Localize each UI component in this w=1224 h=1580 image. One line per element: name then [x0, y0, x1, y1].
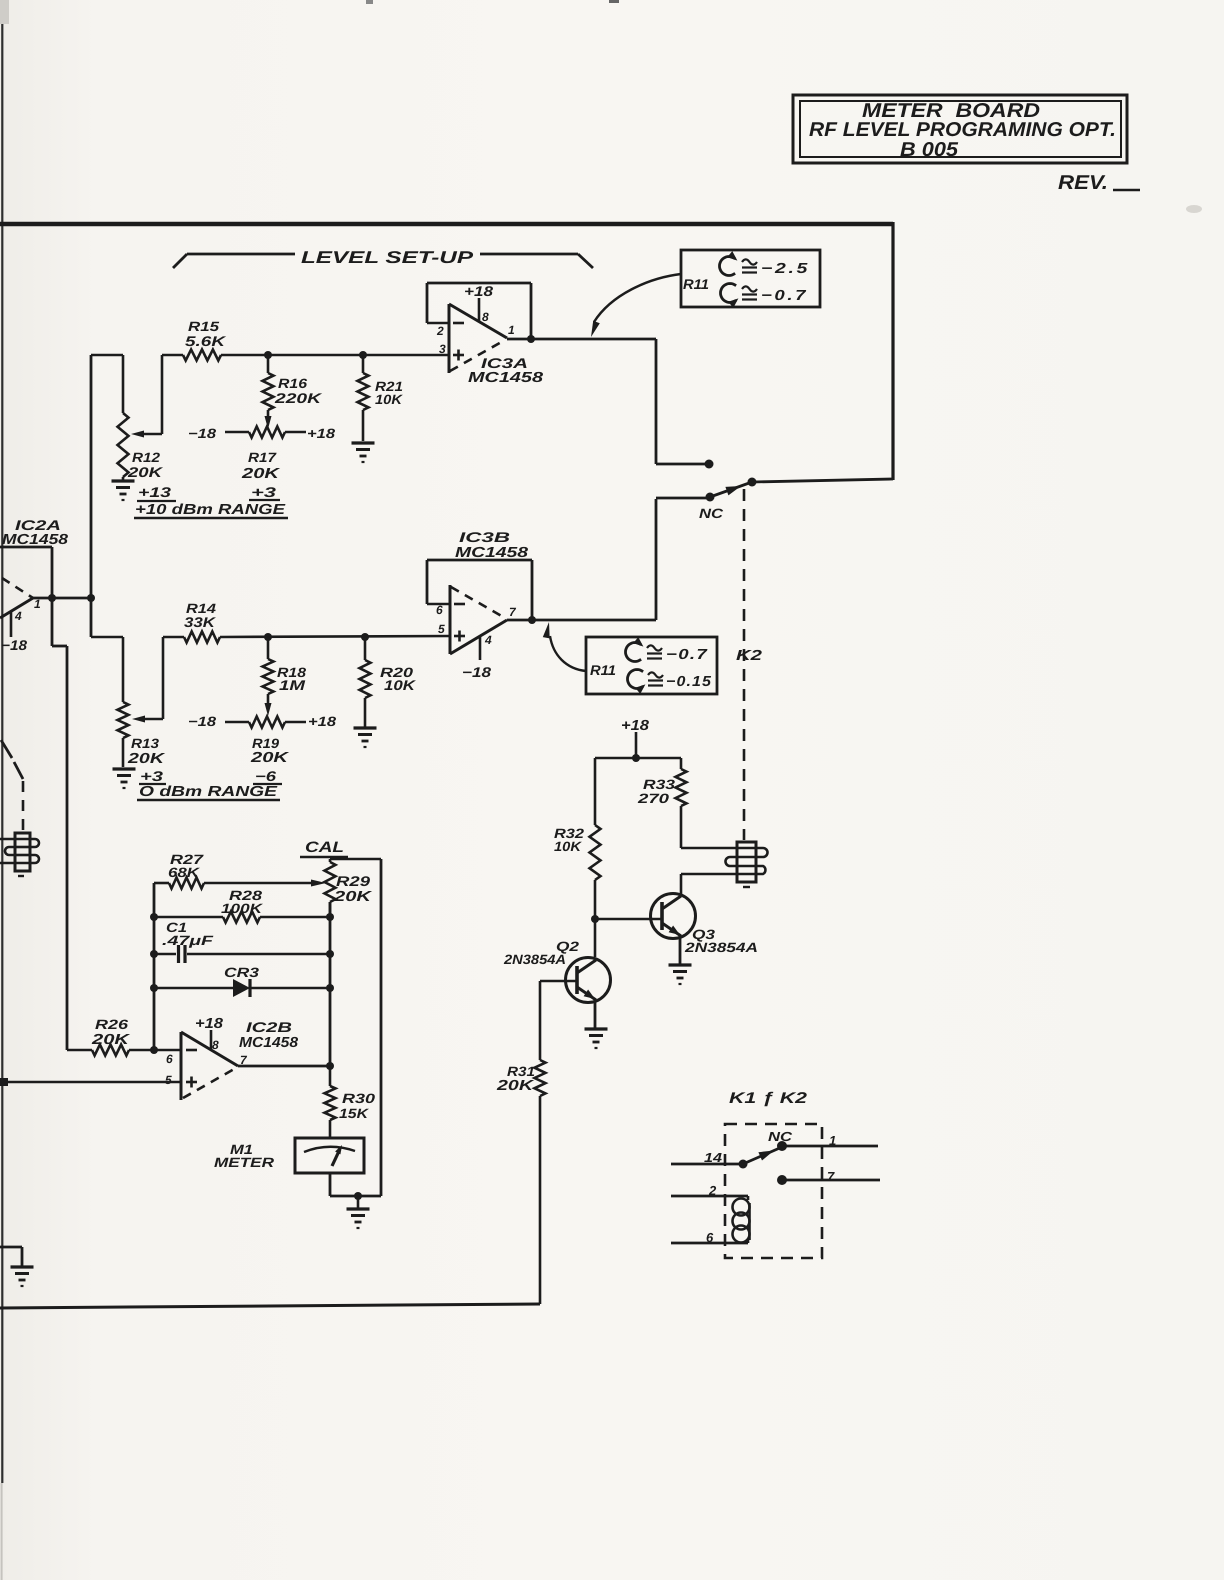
svg-text:20K: 20K: [241, 466, 282, 482]
svg-text:14: 14: [704, 1150, 723, 1165]
svg-text:R33: R33: [643, 777, 676, 792]
svg-text:K1 ƒ K2: K1 ƒ K2: [729, 1090, 808, 1107]
node C1 left: [150, 950, 158, 958]
svg-text:+3: +3: [140, 768, 163, 784]
svg-text:10K: 10K: [384, 677, 416, 693]
wire top border: [0, 222, 893, 226]
svg-text:33K: 33K: [184, 614, 216, 630]
wire left fb rail: [153, 883, 156, 1050]
CR3 label: [224, 965, 260, 980]
R13 value label: [127, 736, 166, 767]
svg-text:−2.5: −2.5: [761, 261, 810, 277]
wire wiper to R14: [163, 636, 184, 639]
svg-text:−0.7: −0.7: [666, 647, 708, 663]
wire IC3B feedback loop: [427, 560, 532, 619]
node meter ground tap: [354, 1192, 362, 1200]
K1 actuation dashed link: [22, 781, 25, 833]
level set-up bracket: [173, 248, 593, 268]
wire Q2 emitter: [594, 999, 597, 1028]
transistor Q2: [566, 958, 611, 1003]
svg-text:R12: R12: [132, 450, 161, 465]
wire IC2B pin5 input: [0, 1078, 181, 1086]
diode CR3: [154, 979, 330, 997]
svg-text:20K: 20K: [496, 1078, 535, 1094]
transistor Q3: [651, 894, 696, 939]
svg-text:R17: R17: [248, 450, 278, 465]
node IC2A fb junction: [48, 594, 56, 602]
svg-text:+18: +18: [195, 1016, 224, 1032]
wire R33 to coil: [681, 847, 737, 850]
meter M1: [295, 1138, 364, 1173]
-18 label R19: [188, 714, 217, 729]
svg-text:RF LEVEL PROGRAMING OPT.: RF LEVEL PROGRAMING OPT.: [809, 119, 1116, 141]
svg-text:R30: R30: [342, 1091, 376, 1106]
svg-text:R26: R26: [95, 1017, 129, 1032]
wire rail to R26: [52, 598, 67, 1050]
svg-text:−0.7: −0.7: [761, 288, 808, 304]
svg-text:NC: NC: [768, 1129, 793, 1144]
R33 value label: [637, 777, 676, 806]
svg-text:+13: +13: [138, 484, 171, 500]
wire right border: [891, 222, 894, 480]
R21 value label: [375, 379, 403, 407]
svg-text:+18: +18: [464, 283, 493, 299]
R11 adjust note lower: [586, 637, 717, 694]
svg-text:4: 4: [484, 633, 492, 647]
potentiometer R19: [225, 717, 306, 728]
svg-text:+3: +3: [251, 484, 276, 500]
IC3A label: [468, 355, 544, 386]
wire IC3A feedback loop: [427, 283, 531, 339]
svg-text:−6: −6: [255, 768, 276, 784]
R12 value label: [127, 450, 163, 480]
R14 value label: [184, 601, 217, 630]
wire common to border: [752, 479, 893, 482]
NC label: [699, 506, 723, 521]
svg-text:O dBm RANGE: O dBm RANGE: [139, 784, 279, 800]
svg-text:20K: 20K: [250, 750, 291, 766]
node +18 tap: [632, 754, 640, 762]
range note 0dBm: [137, 768, 282, 800]
op-amp IC3A: [427, 304, 515, 373]
node pin14 contact: [739, 1160, 748, 1169]
title box: [793, 95, 1127, 163]
ground R20: [354, 728, 377, 747]
node IC3B output-feedback: [528, 616, 536, 624]
resistor R14: [184, 632, 220, 643]
wire wiper to R15: [162, 354, 183, 357]
svg-text:IC2A: IC2A: [15, 517, 61, 533]
svg-text:7: 7: [827, 1169, 835, 1184]
svg-text:R15: R15: [188, 319, 220, 334]
resistor R28: [154, 912, 330, 923]
svg-text:2N3854A: 2N3854A: [684, 940, 758, 955]
R11 lower arrow: [543, 622, 586, 671]
wire IC3A out drop: [656, 339, 706, 464]
svg-text:+10 dBm RANGE: +10 dBm RANGE: [135, 502, 287, 518]
R30 value label: [339, 1091, 376, 1121]
K1-K2 detail title: [729, 1090, 808, 1107]
node IC2B output: [326, 1062, 334, 1070]
ground meter: [347, 1209, 370, 1228]
wire base junction to Q3: [595, 918, 662, 921]
R27 value label: [168, 852, 205, 880]
svg-text:−18: −18: [462, 664, 491, 680]
node R20 tap: [361, 633, 369, 641]
node R16 tap: [264, 351, 272, 359]
node R28 left: [150, 913, 158, 921]
resistor R32: [590, 758, 601, 919]
ground R13: [113, 769, 136, 788]
ground Q3: [669, 965, 692, 984]
svg-text:220K: 220K: [274, 390, 323, 406]
svg-text:R16: R16: [278, 376, 308, 391]
wire left rail upper: [90, 355, 93, 598]
wire R14 to IC3B pin5: [220, 636, 450, 637]
Q2 label: [503, 939, 580, 967]
wire Q3 emitter: [679, 935, 682, 964]
svg-text:+18: +18: [621, 718, 650, 734]
+18 label R19: [308, 714, 337, 729]
resistor R33: [676, 758, 687, 848]
K2 label: [736, 648, 762, 664]
resistor R30: [325, 1066, 336, 1138]
ground bottom-left: [11, 1267, 34, 1286]
range note +10dBm: [134, 484, 288, 518]
svg-text:4: 4: [14, 609, 22, 623]
potentiometer R13: [118, 637, 129, 767]
ground R12: [112, 481, 135, 500]
svg-text:8: 8: [212, 1038, 219, 1052]
svg-text:2: 2: [436, 324, 444, 338]
node C1 right: [326, 950, 334, 958]
NC label detail: [768, 1129, 793, 1144]
svg-text:−18: −18: [1, 637, 27, 653]
potentiometer R29: [325, 859, 336, 918]
wire right rail: [380, 859, 383, 1196]
R32 value label: [554, 826, 585, 854]
ground R21: [352, 443, 375, 462]
svg-text:REV.: REV.: [1058, 172, 1108, 194]
wire junction to Q2 collector: [594, 919, 597, 957]
R11 adjust note upper: [681, 250, 820, 308]
R16 value label: [274, 376, 323, 406]
svg-text:CR3: CR3: [224, 965, 260, 980]
svg-text:10K: 10K: [375, 392, 403, 407]
svg-text:8: 8: [482, 310, 489, 324]
svg-text:20K: 20K: [127, 464, 163, 480]
wire meter to ground rail: [330, 1173, 381, 1196]
ground Q2: [585, 1029, 608, 1048]
svg-text:1: 1: [508, 323, 515, 337]
wire +18 bus: [595, 757, 681, 760]
wire IC2A feedback: [0, 547, 52, 598]
wire R15 node to rail: [91, 354, 123, 357]
svg-text:B 005: B 005: [900, 139, 959, 161]
svg-text:68K: 68K: [168, 865, 201, 880]
resistor R18: [263, 637, 274, 716]
R18 value label: [277, 665, 307, 693]
pin 1 wire: [782, 1133, 878, 1148]
K1-K2 dashed outline: [725, 1124, 822, 1258]
node R21 tap: [359, 351, 367, 359]
svg-text:K2: K2: [736, 648, 762, 664]
svg-text:+18: +18: [307, 426, 336, 441]
svg-text:CAL: CAL: [305, 839, 344, 856]
svg-text:2N3854A: 2N3854A: [503, 952, 566, 967]
op-amp IC3B: [427, 585, 517, 660]
pin 7 wire: [782, 1169, 880, 1184]
R13 wiper: [132, 637, 163, 723]
R28 value label: [221, 888, 264, 916]
potentiometer R17: [225, 427, 306, 438]
M1 label: [214, 1142, 274, 1170]
svg-text:IC3B: IC3B: [459, 529, 510, 545]
IC2A label: [2, 517, 69, 548]
relay coil K1: [0, 833, 39, 876]
node CR3 right: [326, 984, 334, 992]
svg-text:NC: NC: [699, 506, 723, 521]
-18 label R17: [188, 426, 217, 441]
C1 value label: [162, 920, 214, 948]
svg-text:5.6K: 5.6K: [185, 333, 226, 349]
+18 label R17: [307, 426, 336, 441]
svg-text:15K: 15K: [339, 1106, 369, 1121]
svg-text:R11: R11: [683, 276, 709, 292]
R15 value label: [185, 319, 226, 349]
R31 value label: [496, 1064, 535, 1094]
svg-text:R31: R31: [507, 1064, 535, 1079]
node switch common: [748, 478, 757, 487]
op-amp IC2A: [0, 578, 41, 637]
svg-text:5: 5: [165, 1073, 172, 1087]
resistor R26: [67, 1045, 181, 1056]
svg-text:5: 5: [438, 622, 445, 636]
svg-text:6: 6: [166, 1052, 173, 1066]
-18 supply IC3B: [462, 664, 491, 680]
svg-text:−18: −18: [188, 714, 217, 729]
svg-text:10K: 10K: [554, 839, 582, 854]
svg-text:6: 6: [436, 603, 443, 617]
K2 actuation dashed link: [743, 489, 746, 840]
svg-text:20K: 20K: [91, 1032, 132, 1048]
svg-text:MC1458: MC1458: [468, 370, 544, 386]
wire R29 top to rail: [330, 858, 381, 861]
R29 value label: [333, 873, 374, 905]
svg-text:R13: R13: [131, 736, 160, 751]
svg-text:.47μF: .47μF: [162, 933, 214, 948]
resistor R16: [263, 355, 274, 429]
+18 supply node: [621, 718, 650, 758]
wire IC2A output: [33, 597, 94, 600]
svg-text:+18: +18: [308, 714, 337, 729]
R20 value label: [380, 665, 416, 693]
wire fb right rail: [329, 902, 332, 1065]
node detail NC: [777, 1141, 787, 1151]
svg-text:METER: METER: [214, 1155, 274, 1170]
REV label: [1058, 172, 1202, 213]
wire R15 to IC3A pin3: [221, 354, 449, 357]
svg-text:270: 270: [637, 791, 670, 806]
wire bottom run: [0, 1304, 540, 1308]
svg-text:R19: R19: [252, 736, 280, 751]
resistor R20: [360, 637, 371, 727]
IC2B label: [239, 1019, 299, 1051]
pin 6 wire: [671, 1230, 748, 1245]
node IC2A out rail: [87, 594, 95, 602]
svg-text:20K: 20K: [333, 889, 374, 905]
op-amp IC2B: [165, 1030, 248, 1100]
svg-text:IC3A: IC3A: [481, 355, 528, 371]
R26 value label: [91, 1017, 132, 1048]
CAL label: [300, 839, 348, 857]
IC3B label: [455, 529, 529, 561]
pin 14 wire: [671, 1150, 740, 1165]
node NC contact: [706, 493, 715, 502]
scan edge artifacts: [0, 0, 619, 1580]
node IC2B pin6: [150, 1046, 158, 1054]
svg-text:R11: R11: [590, 662, 616, 678]
wire ground stub: [357, 1196, 360, 1208]
wire IC3B out riser: [656, 498, 707, 620]
resistor R31: [535, 981, 546, 1304]
svg-text:1: 1: [829, 1133, 836, 1148]
node open contact: [705, 460, 714, 469]
-18 supply IC2A: [1, 637, 27, 653]
pin 2 wire: [671, 1183, 748, 1198]
node R18 tap: [264, 633, 272, 641]
R17 value label: [241, 450, 282, 482]
R29 wiper wire: [204, 880, 326, 887]
R12 wiper: [131, 355, 162, 438]
svg-text:−18: −18: [188, 426, 217, 441]
wire Q2 base: [540, 980, 577, 983]
detail relay coil: [733, 1196, 750, 1243]
svg-text:1M: 1M: [279, 677, 305, 693]
svg-text:R29: R29: [336, 873, 370, 889]
node CR3 left: [150, 984, 158, 992]
svg-text:MC1458: MC1458: [239, 1035, 299, 1051]
wire IC3A output: [507, 338, 656, 341]
+18 supply IC2B: [195, 1016, 224, 1032]
resistor R21: [358, 355, 369, 441]
wire coil to Q3 collector: [681, 874, 737, 896]
svg-text:20K: 20K: [127, 751, 166, 767]
wire rail to R13: [91, 598, 123, 637]
relay coil K2: [726, 842, 768, 887]
R19 value label: [250, 736, 291, 766]
wire IC2B output: [238, 1065, 330, 1068]
R11 upper arrow: [591, 274, 681, 337]
wire bottom-left ground run: [0, 1247, 22, 1266]
Q3 label: [684, 927, 758, 955]
capacitor C1: [154, 945, 330, 963]
+18 supply IC3A: [464, 283, 493, 322]
wire IC3B output: [507, 619, 656, 622]
node IC3A output-feedback: [527, 335, 535, 343]
svg-text:2: 2: [708, 1183, 717, 1198]
node pin7: [777, 1175, 787, 1185]
node R28 right: [326, 913, 334, 921]
detail switch arm: [743, 1147, 782, 1164]
switch arm K2: [710, 482, 752, 497]
potentiometer R12: [118, 355, 129, 480]
resistor R15: [183, 350, 221, 361]
svg-text:6: 6: [706, 1230, 714, 1245]
K1 switch arm fragment: [1, 740, 23, 779]
node base junction: [591, 915, 599, 923]
svg-text:−0.15: −0.15: [666, 674, 712, 690]
resistor R27: [154, 878, 204, 889]
svg-text:100K: 100K: [221, 901, 264, 916]
svg-text:IC2B: IC2B: [246, 1019, 292, 1035]
svg-text:LEVEL SET-UP: LEVEL SET-UP: [301, 248, 474, 267]
